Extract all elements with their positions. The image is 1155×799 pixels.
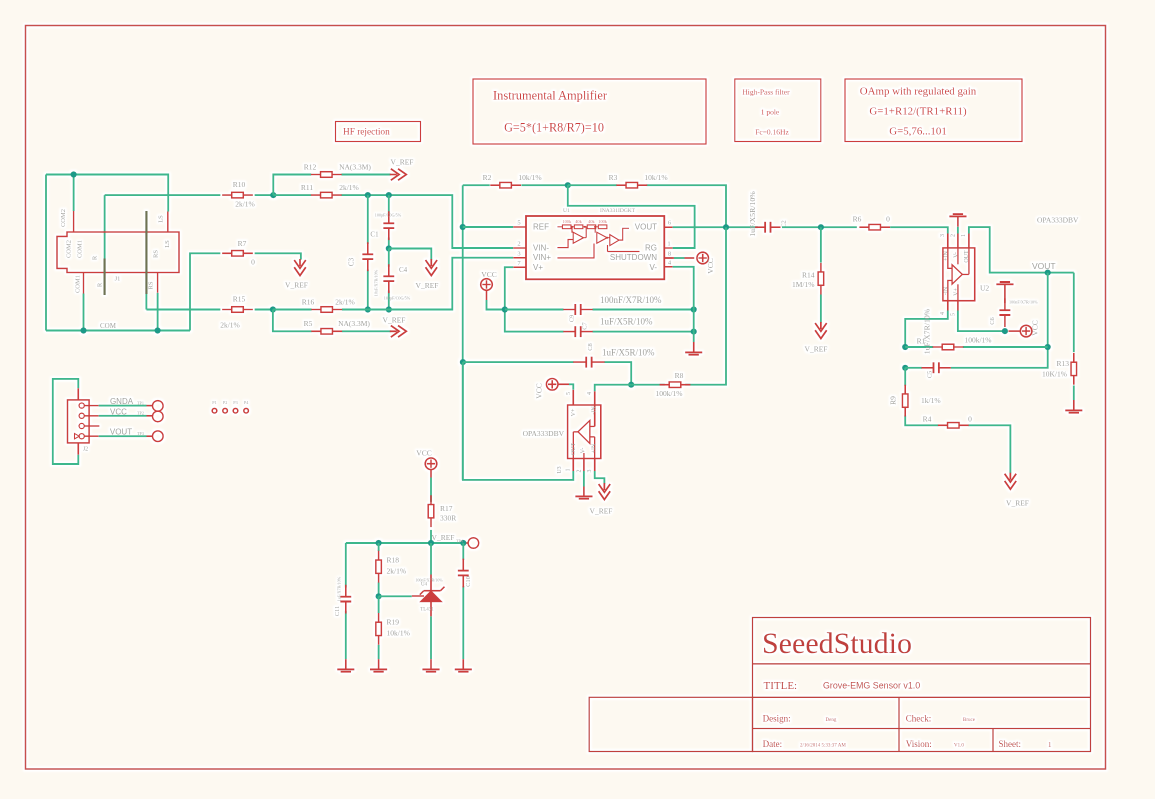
wire C1 branches bbox=[388, 195, 390, 248]
svg-text:OAmp with regulated gain: OAmp with regulated gain bbox=[860, 86, 977, 98]
U3 internal pin lines bbox=[573, 405, 594, 459]
svg-text:R3: R3 bbox=[609, 173, 618, 182]
svg-text:Fc=0.16Hz: Fc=0.16Hz bbox=[755, 128, 789, 137]
wire R8 row bbox=[631, 227, 726, 385]
title block frame bbox=[589, 618, 1090, 752]
capacitor C3 bbox=[367, 242, 369, 271]
svg-text:1uF/X5R/10%: 1uF/X5R/10% bbox=[602, 348, 655, 358]
svg-text:P1: P1 bbox=[212, 400, 216, 405]
wire REF long vertical bbox=[462, 185, 464, 480]
svg-text:TITLE:: TITLE: bbox=[764, 680, 798, 692]
wire U3 +IN to V_REF bbox=[595, 471, 605, 484]
svg-text:COM2: COM2 bbox=[60, 209, 67, 227]
node R1 left bbox=[902, 344, 908, 350]
svg-text:OPA333DBV: OPA333DBV bbox=[523, 429, 565, 438]
svg-text:VIN+: VIN+ bbox=[533, 253, 551, 262]
svg-text:U4: U4 bbox=[421, 583, 428, 588]
VCC supply at U1 bbox=[481, 279, 493, 291]
svg-text:R7: R7 bbox=[238, 239, 247, 248]
svg-text:10nF/X7R/10%: 10nF/X7R/10% bbox=[374, 269, 379, 296]
V_REF arrow below C1 bbox=[426, 259, 438, 276]
svg-text:TP1: TP1 bbox=[137, 401, 144, 406]
node C8 tap bbox=[460, 359, 466, 365]
svg-text:-IN: -IN bbox=[944, 286, 950, 295]
node C9 right bbox=[691, 306, 697, 312]
svg-text:100k: 100k bbox=[598, 219, 607, 224]
svg-text:100nF/X7R/10%: 100nF/X7R/10% bbox=[415, 578, 443, 583]
node C1 top bbox=[386, 192, 392, 198]
svg-text:INA331IDGKT: INA331IDGKT bbox=[600, 208, 636, 214]
resistor R16 bbox=[311, 309, 342, 311]
wire R19 branch bbox=[378, 596, 380, 659]
resistor R10 bbox=[222, 194, 253, 196]
wire R6 to U2 +IN bbox=[890, 227, 948, 233]
node V+ bypass bbox=[502, 306, 508, 312]
wire R pin to R10 bbox=[104, 195, 106, 258]
wire J2 mount loop bbox=[53, 379, 79, 464]
V_REF arrow below R4 bbox=[1005, 473, 1017, 490]
svg-text:J1: J1 bbox=[115, 276, 121, 283]
resistor R3 bbox=[616, 184, 647, 186]
svg-text:V+: V+ bbox=[533, 263, 543, 272]
svg-text:Instrumental Amplifier: Instrumental Amplifier bbox=[493, 89, 608, 103]
wire COM2 drop bbox=[73, 175, 75, 212]
svg-text:COM1: COM1 bbox=[75, 275, 82, 293]
ground below U4 bbox=[430, 659, 432, 669]
V_REF arrow below U3 bbox=[599, 483, 611, 500]
node COM2 junction bbox=[71, 171, 77, 177]
note box: High-Pass filter bbox=[735, 79, 821, 142]
svg-text:C5: C5 bbox=[927, 371, 934, 379]
resistor R12 bbox=[311, 174, 342, 176]
wire COM bottom bbox=[46, 330, 190, 332]
wire midpoint to V_REF bbox=[389, 249, 432, 260]
svg-text:R17: R17 bbox=[440, 504, 453, 513]
svg-text:V-: V- bbox=[580, 448, 586, 454]
svg-text:SHUTDOWN: SHUTDOWN bbox=[610, 253, 657, 262]
wire R7 row bbox=[190, 253, 301, 330]
svg-text:RS: RS bbox=[148, 281, 155, 289]
wire R4 row bbox=[968, 425, 1010, 473]
svg-text:R18: R18 bbox=[387, 556, 400, 565]
node R15-R16-R5 bbox=[270, 306, 276, 312]
svg-text:VCC: VCC bbox=[535, 383, 544, 398]
node VCC-C6 bbox=[1002, 328, 1008, 334]
svg-text:G=1+R12/(TR1+R11): G=1+R12/(TR1+R11) bbox=[869, 106, 967, 118]
svg-text:10K/1%: 10K/1% bbox=[1042, 370, 1067, 379]
svg-text:100k/1%: 100k/1% bbox=[655, 389, 682, 398]
wire R13 branch bbox=[1073, 273, 1075, 400]
node C10 top bbox=[460, 540, 466, 546]
V_REF arrow right of R5 bbox=[390, 326, 407, 338]
U1 internal resistor chain bbox=[557, 226, 606, 228]
svg-text:100pF/C0G/5%: 100pF/C0G/5% bbox=[384, 296, 411, 301]
V_REF arrow right of R12 bbox=[390, 169, 407, 181]
svg-text:V-: V- bbox=[649, 263, 657, 272]
node C4 bottom bbox=[386, 306, 392, 312]
wire R1 row bbox=[905, 346, 1047, 348]
resistor R7 bbox=[222, 252, 253, 254]
wire R3 row bbox=[568, 185, 726, 227]
svg-text:REF: REF bbox=[533, 223, 549, 232]
resistor R18 bbox=[378, 551, 380, 583]
svg-text:1: 1 bbox=[1048, 741, 1052, 749]
capacitor C2 bbox=[755, 226, 780, 228]
wire COM1 bbox=[83, 294, 85, 331]
U2 pin stubs bottom bbox=[948, 301, 958, 311]
svg-text:C1: C1 bbox=[370, 231, 379, 239]
V_REF arrow below R7 bbox=[294, 259, 306, 276]
svg-text:P3: P3 bbox=[233, 400, 237, 405]
svg-text:VCC: VCC bbox=[416, 449, 431, 458]
test point TP1 bbox=[153, 401, 164, 412]
svg-text:V_REF: V_REF bbox=[416, 281, 439, 290]
svg-text:1 pole: 1 pole bbox=[761, 108, 780, 117]
V_REF arrow below R14 bbox=[815, 322, 827, 339]
svg-text:1uF/X5R/10%: 1uF/X5R/10% bbox=[600, 317, 653, 327]
svg-text:R9: R9 bbox=[889, 396, 898, 405]
U1 internal amp A2 bbox=[557, 227, 609, 258]
svg-text:V_REF: V_REF bbox=[391, 158, 414, 167]
resistor R2 bbox=[490, 184, 521, 186]
svg-text:Deng: Deng bbox=[826, 718, 837, 723]
svg-text:OUT: OUT bbox=[964, 250, 970, 263]
svg-text:2k/1%: 2k/1% bbox=[235, 200, 255, 209]
connector J2 box bbox=[68, 400, 90, 443]
svg-text:VIN-: VIN- bbox=[533, 244, 549, 253]
svg-text:2: 2 bbox=[576, 470, 582, 473]
wire R5 row bbox=[273, 310, 391, 332]
node C5 left bbox=[902, 365, 908, 371]
svg-text:+IN: +IN bbox=[944, 250, 950, 260]
svg-text:2k/1%: 2k/1% bbox=[335, 298, 355, 307]
svg-text:40k: 40k bbox=[575, 219, 582, 224]
svg-text:R: R bbox=[92, 255, 99, 260]
VCC supply at U3 bbox=[546, 379, 558, 391]
test point TP2 bbox=[153, 411, 164, 422]
svg-text:2: 2 bbox=[951, 234, 957, 237]
svg-text:V_REF: V_REF bbox=[432, 533, 455, 542]
svg-text:5: 5 bbox=[566, 392, 572, 395]
svg-text:RG: RG bbox=[645, 244, 657, 253]
capacitor C4 bbox=[388, 264, 390, 293]
capacitor C5 bbox=[922, 367, 951, 369]
svg-text:R16: R16 bbox=[302, 298, 315, 307]
svg-text:HF rejection: HF rejection bbox=[343, 128, 390, 138]
pin L of J1 bbox=[145, 211, 147, 294]
svg-text:10k/1%: 10k/1% bbox=[387, 629, 410, 638]
svg-text:V_REF: V_REF bbox=[285, 281, 308, 290]
wire R11 row bbox=[273, 195, 513, 248]
op-amp U2 OPA333 box bbox=[943, 248, 975, 301]
svg-text:0: 0 bbox=[886, 215, 890, 224]
resistor R13 bbox=[1073, 353, 1075, 385]
svg-text:4: 4 bbox=[587, 392, 593, 395]
wire R10 row bbox=[105, 194, 274, 196]
node C3 bottom bbox=[365, 306, 371, 312]
ground below R19 bbox=[378, 659, 380, 669]
wire R17 to V_REF node bbox=[430, 530, 432, 543]
svg-text:Sheet:: Sheet: bbox=[999, 739, 1022, 749]
svg-text:C4: C4 bbox=[399, 266, 408, 274]
note box: Instrumental Amplifier bbox=[473, 79, 706, 144]
wire C11 branch bbox=[345, 543, 347, 659]
svg-text:1: 1 bbox=[667, 241, 670, 248]
resistor R9 bbox=[904, 385, 906, 417]
resistor R19 bbox=[378, 613, 380, 645]
svg-text:COM: COM bbox=[100, 322, 117, 330]
svg-text:3: 3 bbox=[940, 234, 946, 237]
svg-text:VOUT: VOUT bbox=[110, 428, 132, 437]
svg-text:R13: R13 bbox=[1056, 359, 1069, 368]
svg-text:RS: RS bbox=[153, 250, 160, 258]
wire R9 branch bbox=[905, 368, 938, 426]
svg-text:1uF/X5R/10%: 1uF/X5R/10% bbox=[748, 191, 757, 237]
node R1 right bbox=[1045, 344, 1051, 350]
svg-text:R12: R12 bbox=[304, 163, 317, 172]
wire VOUT row bbox=[673, 226, 758, 228]
svg-text:LS: LS bbox=[164, 240, 171, 248]
svg-text:VOUT: VOUT bbox=[635, 223, 657, 232]
wire COM2 top bbox=[46, 175, 168, 331]
svg-text:C10: C10 bbox=[465, 576, 472, 587]
svg-text:4: 4 bbox=[940, 312, 946, 315]
wire REF to pin5 bbox=[463, 226, 514, 228]
svg-text:C11: C11 bbox=[334, 606, 341, 617]
U1 internal amp A1 bbox=[557, 227, 586, 248]
node COM1 junction bbox=[80, 327, 86, 333]
capacitor C10 bbox=[462, 559, 464, 588]
svg-text:VCC: VCC bbox=[110, 407, 127, 416]
node R18 top bbox=[376, 540, 382, 546]
wire VOUT at J2 bbox=[99, 435, 147, 437]
svg-text:R14: R14 bbox=[802, 271, 815, 280]
wire C7 row bbox=[593, 331, 694, 333]
shunt reference U4 TL431 bbox=[430, 575, 432, 591]
ground above C6 bbox=[1004, 284, 1006, 303]
svg-text:V1.0: V1.0 bbox=[954, 744, 964, 749]
svg-text:VCC: VCC bbox=[706, 258, 715, 273]
svg-text:1uF/X7R/10%: 1uF/X7R/10% bbox=[337, 576, 342, 601]
svg-text:High-Pass filter: High-Pass filter bbox=[742, 88, 790, 97]
svg-text:C9: C9 bbox=[569, 315, 576, 323]
resistor R15 bbox=[222, 309, 253, 311]
wire ref to U4 bbox=[379, 595, 412, 597]
svg-text:Check:: Check: bbox=[906, 714, 932, 724]
svg-text:SeeedStudio: SeeedStudio bbox=[762, 627, 912, 660]
svg-text:2k/1%: 2k/1% bbox=[220, 321, 240, 330]
svg-text:3: 3 bbox=[587, 470, 593, 473]
node RS junction bbox=[155, 327, 161, 333]
node V_REF at R17 bbox=[428, 540, 434, 546]
U2 triangle bbox=[952, 265, 962, 284]
svg-text:Bruce: Bruce bbox=[963, 718, 976, 723]
wire C10 branch bbox=[462, 543, 464, 659]
svg-text:R: R bbox=[97, 282, 104, 287]
ground at U3 bbox=[583, 487, 585, 497]
U3 pin stubs below bbox=[573, 459, 594, 472]
svg-text:R11: R11 bbox=[301, 183, 313, 192]
wire U2 pin2 stub bbox=[957, 227, 959, 234]
svg-text:V_REF: V_REF bbox=[383, 316, 406, 325]
svg-text:V_REF: V_REF bbox=[805, 345, 828, 354]
wire U2 V+ to VCC bbox=[958, 311, 1005, 332]
svg-text:5: 5 bbox=[950, 313, 956, 316]
svg-text:0: 0 bbox=[968, 415, 972, 424]
svg-text:1uF/X7R/10%: 1uF/X7R/10% bbox=[923, 308, 932, 354]
wire L pin to R15 bbox=[145, 294, 147, 310]
node C3 top bbox=[365, 192, 371, 198]
resistor R14 bbox=[820, 263, 822, 295]
wire VOUT to R1 right bbox=[951, 273, 1048, 368]
svg-text:1: 1 bbox=[566, 469, 572, 472]
svg-text:8: 8 bbox=[668, 251, 671, 258]
svg-text:Date:: Date: bbox=[763, 739, 783, 749]
svg-text:TL431: TL431 bbox=[420, 608, 434, 613]
svg-text:-IN: -IN bbox=[591, 406, 597, 415]
node C7 right bbox=[691, 329, 697, 335]
U3 triangle bbox=[578, 421, 590, 444]
U1 internal amp A3 bbox=[608, 228, 640, 251]
capacitor C11 bbox=[345, 585, 347, 614]
connector J1 bbox=[57, 232, 179, 273]
wire C8 row bbox=[463, 362, 631, 385]
wire RS bbox=[157, 293, 159, 331]
svg-text:GNDA: GNDA bbox=[110, 397, 134, 406]
svg-text:100nF/X7R/10%: 100nF/X7R/10% bbox=[1009, 300, 1038, 305]
wire C3 branches bbox=[367, 195, 369, 309]
svg-text:J2: J2 bbox=[83, 447, 88, 453]
ground below C11 bbox=[345, 659, 347, 669]
svg-text:Design:: Design: bbox=[763, 714, 791, 724]
wire C4 branches bbox=[388, 249, 390, 310]
wire U3 -IN bbox=[595, 385, 632, 392]
svg-text:C3: C3 bbox=[348, 257, 356, 266]
op-amp U1 INA331 box bbox=[526, 216, 664, 279]
wire U4 anode to GND bbox=[430, 616, 432, 659]
svg-text:VOUT: VOUT bbox=[1032, 261, 1056, 271]
wire U1 V- to GND bbox=[673, 267, 694, 342]
svg-text:1: 1 bbox=[961, 234, 967, 237]
svg-text:U3: U3 bbox=[557, 466, 563, 473]
svg-text:G=5*(1+R8/R7)=10: G=5*(1+R8/R7)=10 bbox=[504, 121, 604, 135]
resistor R8 bbox=[660, 384, 691, 386]
svg-text:V_REF: V_REF bbox=[590, 507, 613, 516]
wire V_REF rail bbox=[346, 542, 464, 544]
op-amp U3 OPA333 box bbox=[568, 405, 601, 459]
svg-text:Vision:: Vision: bbox=[906, 739, 932, 749]
svg-text:100nF/X7R/10%: 100nF/X7R/10% bbox=[600, 295, 662, 305]
svg-text:VCC: VCC bbox=[481, 270, 496, 279]
node R2-R3-RG bbox=[565, 182, 571, 188]
svg-text:V+: V+ bbox=[571, 408, 577, 416]
svg-text:2k/1%: 2k/1% bbox=[387, 567, 407, 576]
svg-text:VCC: VCC bbox=[1031, 320, 1040, 335]
capacitor C1 bbox=[388, 211, 390, 240]
svg-text:G=5,76...101: G=5,76...101 bbox=[889, 126, 947, 138]
wire U2 OUT bbox=[969, 227, 1074, 273]
svg-text:NA(3.3M): NA(3.3M) bbox=[338, 319, 370, 328]
wire R16 row to VIN+ bbox=[273, 258, 513, 310]
svg-text:R2: R2 bbox=[483, 173, 492, 182]
svg-text:C7: C7 bbox=[582, 321, 589, 329]
wire C5 left stub bbox=[905, 367, 922, 369]
wire R18 branch bbox=[378, 543, 380, 596]
svg-text:LS: LS bbox=[158, 215, 165, 223]
U1 pin stubs bbox=[513, 227, 672, 267]
wire C2 to R6 bbox=[782, 226, 857, 228]
svg-text:R6: R6 bbox=[853, 215, 862, 224]
U2 pin stubs top bbox=[948, 234, 969, 248]
node C1-C4 midpoint bbox=[386, 245, 392, 251]
svg-text:10k/1%: 10k/1% bbox=[518, 173, 541, 182]
svg-text:V-: V- bbox=[954, 252, 960, 258]
ground below R13 bbox=[1073, 400, 1075, 410]
wire R14 branch bbox=[820, 227, 822, 322]
wire R15 row bbox=[146, 309, 273, 311]
note box: OAmp with regulated gain bbox=[845, 79, 1022, 142]
test point TP4 bbox=[468, 538, 479, 549]
pin R of J1 bbox=[103, 259, 105, 296]
svg-text:2k/1%: 2k/1% bbox=[339, 183, 359, 192]
svg-text:40k: 40k bbox=[588, 219, 595, 224]
wire U3 V- to GND bbox=[583, 471, 585, 487]
capacitor C8 bbox=[573, 361, 604, 363]
node R10-R11-R12 bbox=[270, 192, 276, 198]
svg-text:P2: P2 bbox=[223, 400, 227, 405]
svg-text:2/16/2014 5:33:37 AM: 2/16/2014 5:33:37 AM bbox=[800, 744, 846, 749]
node VOUT bbox=[1045, 270, 1051, 276]
capacitor C7 1uF bbox=[563, 331, 592, 333]
wire RG feedback bbox=[568, 185, 695, 248]
svg-text:1M/1%: 1M/1% bbox=[792, 280, 815, 289]
capacitor C6 bbox=[1004, 298, 1006, 327]
J2 pin circles bbox=[79, 403, 84, 408]
svg-text:3: 3 bbox=[517, 250, 520, 257]
VCC supply at pin8 bbox=[697, 252, 709, 264]
svg-text:V+: V+ bbox=[954, 288, 960, 296]
wire U1 pin8 shutdown bbox=[674, 257, 685, 259]
svg-text:C8: C8 bbox=[587, 343, 594, 351]
svg-text:2: 2 bbox=[517, 241, 520, 248]
svg-text:C6: C6 bbox=[989, 316, 996, 324]
svg-text:TP3: TP3 bbox=[137, 431, 144, 436]
resistor R17 bbox=[430, 495, 432, 527]
VCC supply at U2 bbox=[1009, 330, 1021, 332]
resistor R5 bbox=[311, 330, 342, 332]
wire U2 -IN to R1 left bbox=[905, 311, 948, 348]
svg-text:TP4: TP4 bbox=[456, 539, 464, 544]
ground at U1 V- bbox=[693, 342, 695, 352]
U3 V+ pin wire bbox=[557, 383, 569, 385]
svg-text:+IN: +IN bbox=[591, 443, 597, 453]
svg-text:COM1: COM1 bbox=[77, 240, 84, 258]
svg-text:U1: U1 bbox=[563, 208, 570, 214]
svg-text:100k/1%: 100k/1% bbox=[964, 336, 991, 345]
svg-text:1k/1%: 1k/1% bbox=[921, 396, 941, 405]
resistor R6 bbox=[859, 226, 890, 228]
test point TP3 bbox=[153, 431, 164, 442]
resistor R11 bbox=[311, 194, 342, 196]
wire VCC at J2 bbox=[99, 415, 147, 417]
note box: HF rejection bbox=[336, 122, 421, 142]
node C8-R8-U3 bbox=[628, 382, 634, 388]
VCC supply at R17 bbox=[425, 458, 437, 470]
resistor R4 bbox=[938, 424, 969, 426]
wire R12 branch bbox=[273, 175, 390, 196]
svg-text:R5: R5 bbox=[304, 319, 313, 328]
svg-text:V_REF: V_REF bbox=[1006, 499, 1029, 508]
